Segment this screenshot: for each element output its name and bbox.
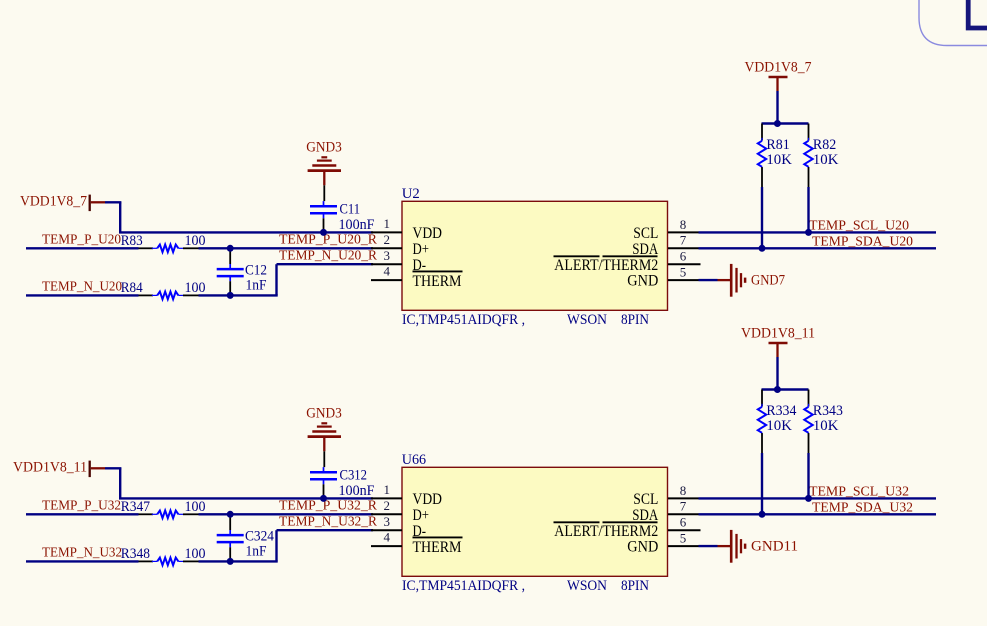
- svg-text:WSON: WSON: [567, 312, 607, 328]
- wire R343 to SCL: [807, 453, 809, 498]
- wire to D- pin: [199, 560, 278, 562]
- wire SDA net: [699, 513, 937, 515]
- svg-text:VDD: VDD: [413, 225, 443, 242]
- svg-text:6: 6: [680, 515, 687, 530]
- svg-text:TEMP_N_U32_R: TEMP_N_U32_R: [279, 513, 377, 528]
- resistor R334 10K: [761, 390, 763, 407]
- U66 pin 6 ALERT/THERM2: [668, 529, 701, 531]
- svg-text:GND7: GND7: [751, 272, 785, 288]
- svg-text:TEMP_N_U20: TEMP_N_U20: [42, 279, 122, 294]
- U2 pin 8 SCL: [668, 231, 699, 233]
- U2 pin 2 D+: [371, 247, 402, 249]
- U66 pin 2 D+: [371, 513, 402, 515]
- capacitor C11 100nF: [323, 185, 325, 201]
- svg-text:TEMP_SCL_U20: TEMP_SCL_U20: [809, 218, 909, 233]
- svg-text:2: 2: [384, 498, 391, 513]
- op-amp-style IC U66 TMP451 body: [402, 467, 668, 576]
- junction: [227, 245, 234, 252]
- capacitor C324 1nF: [229, 514, 231, 530]
- junction: [759, 511, 766, 518]
- wire to D- pin: [199, 294, 278, 296]
- svg-text:R347: R347: [121, 499, 150, 515]
- wire TEMP_N_U20: [26, 294, 139, 296]
- U66 pin 4 THERM: [371, 545, 402, 547]
- svg-text:8: 8: [680, 483, 687, 498]
- svg-text:TEMP_P_U32_R: TEMP_P_U32_R: [279, 498, 377, 513]
- resistor R343 10K: [808, 390, 810, 407]
- wire pin5 to ground: [699, 279, 718, 281]
- svg-text:100: 100: [185, 499, 206, 515]
- junction: [759, 245, 766, 252]
- svg-text:ALERT/THERM2: ALERT/THERM2: [554, 523, 658, 540]
- svg-text:VDD1V8_7: VDD1V8_7: [20, 193, 87, 209]
- svg-text:5: 5: [680, 265, 687, 280]
- junction: [805, 229, 812, 236]
- resistor R348 100: [139, 560, 154, 562]
- svg-text:D+: D+: [413, 507, 430, 524]
- junction: [805, 495, 812, 502]
- svg-text:8: 8: [680, 217, 687, 232]
- svg-text:TEMP_SDA_U20: TEMP_SDA_U20: [812, 233, 913, 248]
- svg-text:100nF: 100nF: [339, 217, 375, 233]
- junction: [227, 511, 234, 518]
- U66 pin 7 SDA: [668, 513, 699, 515]
- svg-text:TEMP_N_U32: TEMP_N_U32: [42, 545, 122, 560]
- svg-text:C324: C324: [245, 529, 275, 545]
- svg-text:TEMP_P_U32: TEMP_P_U32: [42, 498, 121, 513]
- svg-text:C312: C312: [340, 468, 368, 484]
- svg-text:R343: R343: [813, 403, 843, 419]
- svg-text:R334: R334: [766, 403, 797, 419]
- wire to D+ pin: [199, 513, 374, 515]
- svg-text:R81: R81: [766, 137, 789, 153]
- junction: [774, 120, 781, 127]
- wire TEMP_P_U32: [26, 513, 139, 515]
- resistor R81 10K: [761, 124, 763, 141]
- wire SDA net: [699, 247, 937, 249]
- svg-text:1: 1: [384, 216, 391, 231]
- svg-text:GND: GND: [627, 539, 658, 556]
- svg-text:10K: 10K: [813, 152, 839, 168]
- wire VDD1V8_11 to VDD pin: [91, 467, 105, 469]
- svg-text:3: 3: [384, 514, 391, 529]
- resistor R83 100: [139, 247, 154, 249]
- svg-text:THERM: THERM: [413, 273, 462, 290]
- junction: [774, 386, 781, 393]
- svg-text:R84: R84: [121, 280, 143, 296]
- capacitor C312 100nF: [323, 451, 325, 467]
- wire TEMP_P_U20: [26, 247, 139, 249]
- svg-text:IC,TMP451AIDQFR ,: IC,TMP451AIDQFR ,: [402, 312, 525, 328]
- wire R81 to SDA: [761, 187, 763, 248]
- wire pin5 to ground: [699, 545, 718, 547]
- U66 pin 1 VDD: [371, 497, 402, 499]
- junction: [227, 292, 234, 299]
- svg-text:U66: U66: [402, 452, 426, 468]
- svg-text:VDD1V8_11: VDD1V8_11: [741, 326, 815, 342]
- wire to D+ pin: [199, 247, 374, 249]
- svg-text:5: 5: [680, 531, 687, 546]
- svg-text:GND: GND: [627, 273, 658, 290]
- capacitor C12 1nF: [229, 248, 231, 264]
- wire R334 to SDA: [761, 453, 763, 514]
- ground GND11: [730, 530, 733, 563]
- svg-text:R348: R348: [121, 546, 150, 562]
- svg-text:TEMP_P_U20: TEMP_P_U20: [42, 232, 121, 247]
- resistor R347 100: [139, 513, 154, 515]
- wire SCL net: [699, 497, 937, 499]
- U2 pin 1 VDD: [371, 231, 402, 233]
- svg-text:100: 100: [185, 233, 206, 249]
- svg-text:C12: C12: [245, 263, 267, 279]
- svg-text:100nF: 100nF: [339, 483, 375, 499]
- svg-text:THERM: THERM: [413, 539, 462, 556]
- svg-text:VDD1V8_11: VDD1V8_11: [13, 459, 87, 475]
- resistor R82 10K: [808, 124, 810, 141]
- svg-text:100: 100: [185, 546, 206, 562]
- svg-text:U2: U2: [402, 186, 420, 202]
- svg-text:VDD1V8_7: VDD1V8_7: [745, 60, 812, 76]
- sheet symbol corner (top right, light blue rounded): [919, 0, 987, 46]
- svg-text:SDA: SDA: [632, 241, 658, 258]
- junction: [320, 229, 327, 236]
- U2 pin 4 THERM: [371, 279, 402, 281]
- svg-text:8PIN: 8PIN: [621, 312, 649, 328]
- svg-text:3: 3: [384, 248, 391, 263]
- svg-text:10K: 10K: [766, 418, 792, 434]
- svg-text:10K: 10K: [813, 418, 839, 434]
- ground GND7: [730, 264, 733, 297]
- svg-text:SCL: SCL: [633, 225, 658, 242]
- svg-text:TEMP_SCL_U32: TEMP_SCL_U32: [809, 484, 909, 499]
- svg-text:1nF: 1nF: [246, 544, 267, 560]
- wire R82 to SCL: [807, 187, 809, 232]
- svg-text:GND3: GND3: [306, 140, 342, 156]
- svg-text:1: 1: [384, 482, 391, 497]
- svg-text:C11: C11: [340, 202, 361, 218]
- svg-text:100: 100: [185, 280, 206, 296]
- U2 pin 5 GND: [668, 279, 699, 281]
- U2 pin 3 D-: [371, 263, 402, 265]
- U66 pin 3 D-: [371, 529, 402, 531]
- svg-text:8PIN: 8PIN: [621, 578, 649, 594]
- svg-text:7: 7: [680, 233, 687, 248]
- resistor R84 100: [139, 294, 154, 296]
- svg-text:GND11: GND11: [751, 538, 798, 554]
- svg-text:ALERT/THERM2: ALERT/THERM2: [554, 257, 658, 274]
- svg-text:TEMP_SDA_U32: TEMP_SDA_U32: [812, 499, 913, 514]
- svg-text:6: 6: [680, 249, 687, 264]
- svg-text:WSON: WSON: [567, 578, 607, 594]
- svg-text:GND3: GND3: [306, 406, 342, 422]
- svg-text:D+: D+: [413, 241, 430, 258]
- svg-text:2: 2: [384, 232, 391, 247]
- junction: [320, 495, 327, 502]
- U2 pin 6 ALERT/THERM2: [668, 263, 701, 265]
- svg-text:TEMP_P_U20_R: TEMP_P_U20_R: [279, 232, 377, 247]
- svg-text:R83: R83: [121, 233, 143, 249]
- svg-text:IC,TMP451AIDQFR ,: IC,TMP451AIDQFR ,: [402, 578, 525, 594]
- wire TEMP_N_U32: [26, 560, 139, 562]
- svg-text:4: 4: [384, 264, 391, 279]
- op-amp-style IC U2 TMP451 body: [402, 201, 668, 310]
- svg-text:4: 4: [384, 530, 391, 545]
- wire VDD to pull-ups: [776, 357, 778, 390]
- svg-text:SCL: SCL: [633, 491, 658, 508]
- wire SCL net: [699, 231, 937, 233]
- U2 pin 7 SDA: [668, 247, 699, 249]
- svg-text:TEMP_N_U20_R: TEMP_N_U20_R: [279, 247, 377, 262]
- U66 pin 5 GND: [668, 545, 699, 547]
- svg-text:10K: 10K: [766, 152, 792, 168]
- svg-text:VDD: VDD: [413, 491, 443, 508]
- junction: [227, 558, 234, 565]
- wire VDD to pull-ups: [776, 91, 778, 124]
- U66 pin 8 SCL: [668, 497, 699, 499]
- svg-text:1nF: 1nF: [246, 278, 267, 294]
- svg-text:7: 7: [680, 499, 687, 514]
- wire VDD1V8_7 to VDD pin: [91, 201, 105, 203]
- svg-text:R82: R82: [813, 137, 836, 153]
- svg-text:SDA: SDA: [632, 507, 658, 524]
- title block corner (top right, thick navy): [968, 0, 987, 28]
